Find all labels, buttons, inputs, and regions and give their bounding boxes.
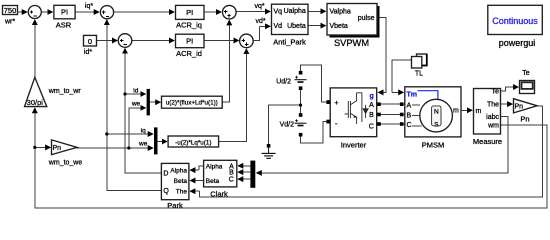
svg-text:-: - bbox=[335, 119, 338, 128]
svg-text:Beta: Beta bbox=[174, 178, 188, 185]
svg-text:S: S bbox=[434, 121, 439, 128]
svg-text:A: A bbox=[407, 102, 412, 109]
svg-text:Te: Te bbox=[522, 70, 530, 77]
svg-text:ACR_id: ACR_id bbox=[176, 49, 202, 58]
svg-text:Anti_Park: Anti_Park bbox=[273, 37, 306, 46]
svg-text:wm: wm bbox=[487, 123, 499, 130]
svg-text:Pn: Pn bbox=[515, 103, 524, 110]
svg-text:Alpha: Alpha bbox=[170, 167, 187, 174]
svg-text:PI: PI bbox=[61, 8, 68, 17]
svg-text:iq*: iq* bbox=[85, 3, 93, 10]
svg-text:TL: TL bbox=[415, 71, 423, 78]
svg-text:C: C bbox=[369, 123, 374, 130]
svg-text:we: we bbox=[131, 100, 141, 107]
svg-text:Te: Te bbox=[492, 89, 500, 96]
svg-text:Pn: Pn bbox=[520, 114, 529, 123]
svg-text:Ubeta: Ubeta bbox=[287, 23, 306, 30]
svg-text:SVPWM: SVPWM bbox=[334, 38, 369, 48]
svg-text:id: id bbox=[133, 88, 138, 95]
svg-text:Inverter: Inverter bbox=[341, 140, 367, 149]
svg-text:g: g bbox=[370, 93, 374, 100]
svg-text:Continuous: Continuous bbox=[492, 16, 538, 26]
svg-text:The: The bbox=[176, 188, 188, 195]
svg-text:iabc: iabc bbox=[486, 114, 499, 121]
svg-text:Ud/2: Ud/2 bbox=[276, 79, 291, 86]
svg-text:ACR_iq: ACR_iq bbox=[176, 21, 202, 30]
svg-text:Tm: Tm bbox=[407, 91, 418, 98]
svg-text:Alpha: Alpha bbox=[206, 164, 223, 171]
svg-text:C: C bbox=[229, 177, 234, 184]
svg-text:+: + bbox=[335, 100, 339, 107]
svg-text:PI: PI bbox=[186, 8, 193, 17]
svg-text:vq*: vq* bbox=[254, 3, 264, 10]
svg-text:Vq: Vq bbox=[274, 9, 283, 16]
svg-text:wm_to_we: wm_to_we bbox=[48, 160, 83, 167]
svg-text:Valpha: Valpha bbox=[330, 9, 351, 16]
svg-text:B: B bbox=[407, 113, 412, 120]
svg-text:B: B bbox=[369, 112, 374, 119]
svg-text:B: B bbox=[229, 170, 234, 177]
svg-text:30/pi: 30/pi bbox=[27, 98, 44, 107]
svg-text:we: we bbox=[138, 140, 148, 147]
svg-text:wm_to_wr: wm_to_wr bbox=[48, 88, 82, 95]
svg-text:ASR: ASR bbox=[56, 21, 72, 30]
svg-text:0: 0 bbox=[88, 37, 92, 46]
svg-text:PMSM: PMSM bbox=[422, 140, 445, 149]
svg-text:Vd: Vd bbox=[274, 23, 283, 30]
svg-text:750: 750 bbox=[4, 6, 17, 15]
svg-text:m: m bbox=[453, 108, 459, 115]
svg-text:Beta: Beta bbox=[206, 178, 220, 185]
svg-text:Clark: Clark bbox=[210, 190, 228, 199]
svg-text:powergui: powergui bbox=[499, 38, 536, 48]
svg-text:Pn: Pn bbox=[53, 145, 62, 152]
svg-text:N: N bbox=[434, 108, 439, 115]
svg-text:Park: Park bbox=[167, 201, 183, 210]
svg-text:Measure: Measure bbox=[473, 137, 502, 146]
svg-text:Vd/2: Vd/2 bbox=[280, 122, 295, 129]
svg-text:Vbeta: Vbeta bbox=[330, 23, 348, 30]
svg-text:A: A bbox=[369, 102, 374, 109]
svg-text:C: C bbox=[407, 122, 412, 129]
svg-text:D: D bbox=[163, 171, 168, 178]
svg-text:vd*: vd* bbox=[255, 18, 265, 25]
svg-text:PI: PI bbox=[186, 36, 193, 45]
svg-text:m: m bbox=[476, 108, 482, 115]
svg-text:u(2)*(flux+Ld*u(1)): u(2)*(flux+Ld*u(1)) bbox=[166, 100, 218, 107]
svg-text:wr*: wr* bbox=[4, 19, 15, 26]
svg-text:id*: id* bbox=[84, 49, 92, 56]
svg-text:Q: Q bbox=[163, 188, 169, 195]
svg-text:-u(2)*Lq*u(1): -u(2)*Lq*u(1) bbox=[175, 139, 211, 146]
svg-text:pulse: pulse bbox=[358, 15, 375, 22]
svg-text:The: The bbox=[487, 102, 499, 109]
svg-text:Ualpha: Ualpha bbox=[284, 8, 306, 15]
svg-text:iq: iq bbox=[141, 127, 146, 134]
